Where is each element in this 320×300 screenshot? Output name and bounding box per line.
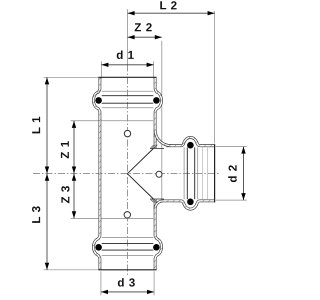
- dimension L3: [46, 174, 48, 270]
- svg-text:Z 1: Z 1: [59, 140, 72, 158]
- extension line: bottom rim to L3: [44, 269, 99, 271]
- extension line + socket stop: Z3: [71, 217, 154, 219]
- dimension Z2: [128, 36, 162, 38]
- svg-text:Z 3: Z 3: [59, 185, 72, 203]
- branch socket internal lines: [207, 147, 209, 199]
- dimension L2: [128, 12, 215, 14]
- extension line: branch rim up to L2: [214, 11, 216, 143]
- O-ring dot bottom-left: [95, 244, 102, 251]
- extension lines: d3: [100, 271, 102, 295]
- svg-text:L 3: L 3: [30, 205, 43, 223]
- bottom rim (end face): [98, 269, 156, 271]
- dimension d2: [243, 147, 245, 201]
- dimension Z3: [73, 174, 75, 219]
- dimension Z1: [73, 121, 75, 174]
- top socket internal lines: [102, 90, 154, 92]
- junction hatch ticks lower corner: [151, 199, 158, 202]
- hole circle upper pipe: [124, 130, 130, 136]
- dimension d1: [101, 64, 153, 66]
- extension line + socket stop: Z2 (vertical): [161, 41, 163, 199]
- pipe wall right lower (section band): [155, 199, 161, 270]
- extension line: top rim to L1: [44, 76, 99, 78]
- O-ring dot bottom-right: [153, 244, 160, 251]
- centerline: branch axis dash-dot: [33, 173, 219, 175]
- junction hatch ticks upper corner: [151, 145, 158, 148]
- centerline: vertical pipe axis dash-dot: [127, 65, 129, 276]
- O-ring dot branch-bottom: [187, 199, 194, 206]
- junction fillet lower (section band): [155, 201, 163, 209]
- O-ring dot top-left: [95, 97, 102, 104]
- junction step line lower: [150, 198, 164, 200]
- branch top wall (section band): [167, 137, 215, 145]
- bottom socket internal lines: [102, 255, 154, 257]
- pipe wall left (section band): [93, 77, 99, 269]
- O-ring dot top-right: [153, 97, 160, 104]
- weld line upper (bore intersection): [127, 148, 153, 173]
- dimension d3: [101, 291, 154, 293]
- svg-text:L 1: L 1: [30, 116, 43, 134]
- svg-text:d 3: d 3: [117, 276, 135, 289]
- weld line lower (bore intersection): [127, 174, 153, 199]
- top rim (end face): [98, 76, 156, 78]
- dimension L1: [46, 77, 48, 173]
- extension line + socket stop: Z1: [71, 120, 154, 122]
- svg-text:d 2: d 2: [227, 164, 240, 182]
- svg-text:L 2: L 2: [159, 0, 177, 12]
- branch bottom wall (section band): [162, 201, 215, 209]
- O-ring dot branch-top: [187, 142, 194, 149]
- extension lines: d1: [100, 61, 102, 78]
- svg-text:d 1: d 1: [116, 49, 134, 62]
- svg-text:Z 2: Z 2: [134, 21, 152, 34]
- junction step line upper: [150, 147, 164, 149]
- pipe wall right upper (section band): [155, 77, 161, 148]
- hole circle branch: [156, 171, 162, 177]
- extension lines: d2: [216, 146, 247, 148]
- hole circle lower pipe: [124, 212, 130, 218]
- centerline: vertical pipe axis (upper solid extension serving L2/Z2/d1): [127, 9, 129, 64]
- branch rim (end face): [214, 144, 216, 202]
- junction fillet upper (section band): [155, 130, 171, 146]
